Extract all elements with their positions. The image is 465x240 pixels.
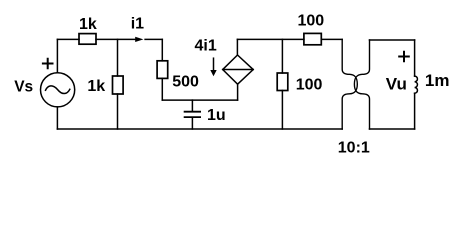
- resistor R5 100 vertical box: [277, 73, 288, 91]
- wire secondary loop bottom: [370, 128, 415, 130]
- wire corner down to 500: [161, 39, 163, 60]
- wire 1k to arrow: [96, 38, 135, 40]
- plus sign Vs polarity: [43, 59, 53, 69]
- wire secondary right top: [414, 40, 416, 76]
- transformer T1 secondary winding: [354, 40, 369, 129]
- arrow 4i1 control stem: [213, 58, 215, 70]
- svg-text:100: 100: [296, 76, 323, 93]
- svg-text:Vs: Vs: [14, 79, 33, 96]
- wire capacitor tap: [191, 100, 193, 111]
- wire capacitor bottom: [191, 118, 193, 129]
- transformer T1 primary winding: [342, 39, 357, 129]
- diamond mid line: [223, 69, 254, 71]
- plus sign Vu polarity: [399, 52, 409, 62]
- svg-text:100: 100: [297, 12, 324, 29]
- dependent source 4i1 diamond: [223, 55, 254, 84]
- wire secondary loop top: [370, 39, 415, 41]
- svg-text:i1: i1: [131, 16, 144, 33]
- wire diamond bottom: [237, 84, 239, 100]
- wire 100 vertical top: [281, 39, 283, 73]
- voltage source Vs circle: [41, 73, 75, 107]
- wire Vs top: [56, 39, 58, 72]
- svg-text:4i1: 4i1: [194, 38, 216, 55]
- wire secondary right bottom: [414, 93, 416, 129]
- resistor R1 1k horizontal box: [79, 34, 96, 45]
- arrow 4i1 control head: [210, 70, 216, 76]
- resistor R3 1k vertical box: [113, 76, 124, 94]
- sine wave inside Vs: [46, 86, 70, 94]
- wire 1k vertical top: [117, 39, 119, 76]
- wire 100h to transformer: [321, 38, 342, 40]
- wire diamond top: [236, 39, 238, 55]
- wire arrow to corner: [145, 38, 162, 40]
- wire 1k vertical bottom: [117, 94, 119, 129]
- svg-text:Vu: Vu: [386, 75, 407, 94]
- wire Vs bottom: [56, 107, 58, 129]
- svg-text:500: 500: [172, 73, 199, 90]
- wire top rail left: [57, 38, 79, 40]
- capacitor C1 plates: [185, 111, 201, 113]
- wire bottom rail: [57, 128, 342, 130]
- resistor R2 500 vertical box: [157, 61, 168, 79]
- wire 100v bottom: [281, 91, 283, 130]
- arrow i1 current: [135, 37, 143, 42]
- svg-text:1k: 1k: [79, 16, 97, 33]
- wire 500 bottom to mid rail: [161, 78, 163, 100]
- wire top rail right: [237, 38, 304, 40]
- svg-text:1m: 1m: [425, 71, 450, 90]
- resistor R4 100 horizontal box: [304, 33, 321, 44]
- wire mid rail: [162, 99, 237, 101]
- inductor L1 1m coil: [415, 76, 418, 93]
- svg-text:10:1: 10:1: [338, 140, 370, 157]
- svg-text:1u: 1u: [207, 107, 226, 124]
- svg-text:1k: 1k: [87, 78, 105, 95]
